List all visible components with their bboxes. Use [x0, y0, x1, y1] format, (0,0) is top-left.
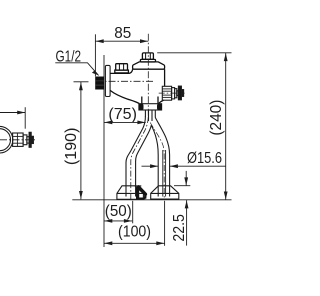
240 arrows — [224, 53, 228, 61]
dia 15.6 arrows — [150, 164, 158, 168]
G1/2 leader with arrow — [55, 63, 98, 76]
inlet arm top edge with fillet to bell — [110, 69, 133, 73]
dim 100 right extension — [164, 201, 166, 246]
fitting ring — [172, 88, 175, 99]
right side fitting — [162, 86, 183, 100]
svg-text:22.5: 22.5 — [171, 214, 188, 242]
left flush pipe (slanted) — [126, 117, 151, 197]
side view collar — [23, 135, 27, 145]
right floor flange — [151, 186, 179, 199]
hex cap nut — [142, 53, 153, 60]
left flange section blob (black) — [136, 186, 146, 199]
floor line — [72, 199, 231, 201]
dim 85 left extension — [94, 34, 96, 76]
left pipe centerline — [131, 117, 149, 200]
dia 15.6 left line — [142, 165, 159, 167]
side view tee bar — [29, 132, 31, 147]
dia 15.6 right line — [170, 165, 226, 167]
dim 190 top tick — [74, 81, 89, 83]
dim 100 line — [104, 242, 165, 244]
coupling nut under body — [139, 104, 162, 111]
fitting end bar (black) — [178, 86, 181, 100]
right pipe centerline — [150, 123, 164, 201]
svg-text:(50): (50) — [105, 203, 132, 220]
vacuum breaker base — [115, 70, 129, 73]
side view centerline — [0, 139, 35, 141]
wall line — [103, 55, 105, 247]
svg-text:85: 85 — [114, 25, 131, 42]
svg-text:(190): (190) — [63, 128, 80, 166]
valve vertical centerline — [147, 34, 149, 117]
body right wall — [164, 69, 166, 86]
side view knob — [31, 136, 33, 143]
50 arrows — [104, 219, 112, 223]
side view wall flange outer circle — [0, 126, 13, 153]
side view dimension line (cut off at left) — [0, 107, 25, 129]
svg-text:(240): (240) — [208, 100, 225, 136]
inner tail pipe lines — [162, 150, 164, 197]
body neck left wall — [141, 97, 143, 104]
fitting centerline — [159, 92, 185, 94]
fitting small ring — [175, 89, 177, 98]
wall flange plate — [105, 65, 110, 96]
svg-text:G1/2: G1/2 — [56, 49, 82, 66]
85 arrows — [96, 39, 104, 43]
valve body outline — [110, 53, 165, 104]
190 arrows — [79, 82, 83, 90]
dim 190 line — [80, 82, 82, 199]
body neck right wall / under fitting curve — [159, 100, 164, 103]
22.5 lower leader — [186, 200, 188, 245]
dim 75 line — [104, 121, 146, 123]
fitting end nub — [182, 90, 184, 97]
dim 50 right extension — [132, 201, 134, 224]
22.5 upper leader — [185, 171, 187, 186]
left floor flange — [117, 186, 143, 200]
fitting hex nut — [162, 86, 171, 100]
G1/2 inlet nut (black) — [95, 77, 104, 90]
ext line top of valve to 240 — [157, 52, 231, 54]
inlet arm centerline — [96, 80, 154, 82]
svg-text:(100): (100) — [118, 223, 151, 240]
svg-text:(75): (75) — [108, 106, 137, 123]
75 arrows — [104, 121, 112, 125]
dim 50 line — [104, 220, 132, 222]
dim 85 line — [95, 40, 148, 42]
side view wall flange inner circle — [0, 129, 11, 151]
pipe stub below nut — [145, 110, 155, 121]
22.5 arrows — [184, 177, 188, 185]
flange top extension — [174, 185, 190, 187]
dim 240 line — [225, 53, 227, 200]
bell (upper cover) — [133, 62, 165, 69]
hex cap base disc — [140, 59, 155, 62]
fitting stem — [177, 91, 179, 96]
side view stem — [27, 137, 29, 143]
svg-text:Ø15.6: Ø15.6 — [187, 150, 222, 167]
arrowheads — [79, 39, 228, 245]
right flush pipe (vertical) — [151, 118, 169, 197]
vacuum breaker hex — [116, 64, 128, 70]
side view hex nut — [13, 133, 24, 146]
inlet arm bottom / body lower-left curve — [110, 90, 139, 103]
100 arrows — [104, 241, 112, 245]
